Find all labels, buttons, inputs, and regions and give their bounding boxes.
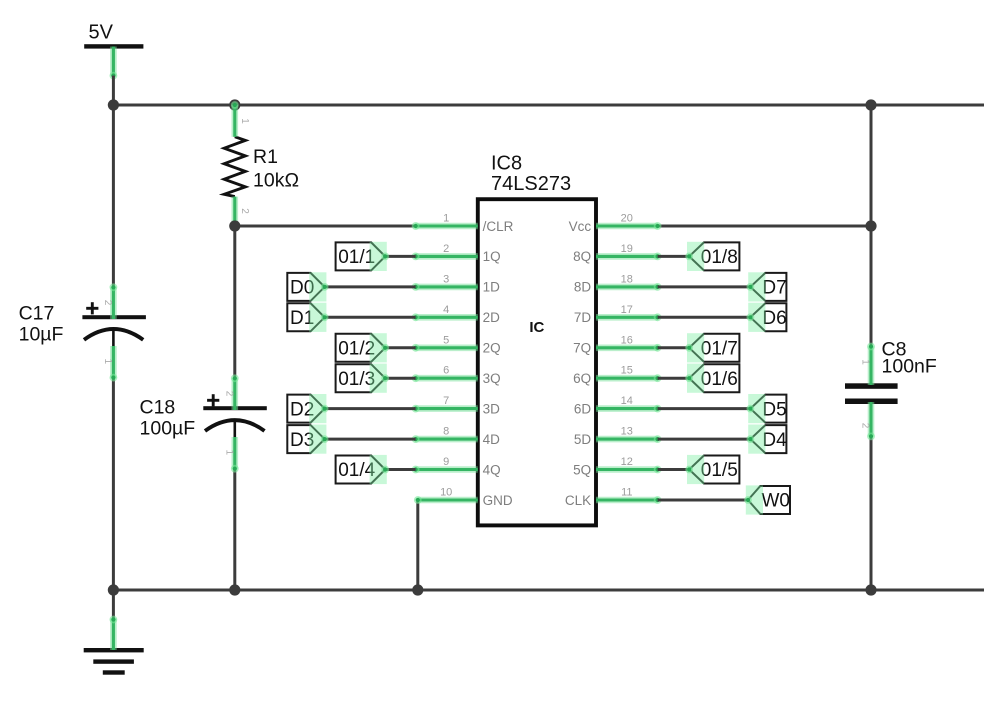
R1 pin 2 wire [231,197,250,230]
C17 pin 2 wire [102,283,117,319]
junction R1 / top rail [229,99,240,110]
IC8 pin 14 (6D) [574,395,662,416]
net label D3 [287,425,328,454]
svg-text:5Q: 5Q [573,462,591,477]
IC8 pin 18 (8D) [574,273,662,294]
wire R1 rail (junction to C18) [233,226,236,379]
power symbol 5V [84,22,143,49]
net label D5 [747,394,787,423]
C18 pin 2 wire [224,374,239,410]
svg-text:5: 5 [443,334,449,346]
C17 value label [19,303,64,346]
wire GND pin 10 down to bottom rail [416,500,419,590]
bottom ground rail wire [113,589,984,592]
svg-text:01/5: 01/5 [701,460,738,481]
svg-text:1: 1 [860,359,871,365]
svg-text:7: 7 [443,395,449,407]
net label 01/8 [685,242,739,271]
svg-text:01/8: 01/8 [701,247,738,268]
svg-text:9: 9 [443,456,449,468]
wire C8 to bottom rail [870,435,873,590]
svg-text:D4: D4 [762,430,787,451]
wire 5V to top rail [112,76,115,105]
svg-text:8: 8 [443,426,449,438]
capacitor C18 [203,394,266,438]
svg-text:2: 2 [224,391,235,397]
svg-text:D6: D6 [762,308,786,329]
IC8 pin 19 (8Q) [573,243,661,264]
IC8 reference label [491,153,571,196]
wire C8 rail (top rail to C8) [870,105,873,348]
IC8 pin 7 (3D) [412,395,500,416]
svg-text:18: 18 [621,273,633,285]
svg-text:4: 4 [443,304,449,316]
svg-text:5V: 5V [89,22,114,44]
svg-text:12: 12 [621,456,633,468]
wire D1 to IC pin [325,316,416,319]
IC8 pin 3 (1D) [412,273,500,294]
svg-text:2: 2 [860,423,871,429]
wire IC pin to 01/5 [658,468,690,471]
svg-text:7D: 7D [574,310,592,325]
wire IC pin to D4 [658,438,751,441]
svg-text:C17: C17 [19,303,55,325]
C17 pin 1 wire [102,346,117,382]
left rail wire (top rail to C17) [112,105,115,289]
svg-text:1D: 1D [483,280,501,295]
IC8 pin 15 (6Q) [573,365,661,386]
svg-text:W0: W0 [762,491,791,512]
svg-text:1Q: 1Q [483,249,501,264]
svg-text:5D: 5D [574,432,592,447]
svg-text:3: 3 [443,273,449,285]
svg-text:7Q: 7Q [573,341,591,356]
svg-text:16: 16 [621,334,633,346]
ground pin wire [110,590,118,650]
wire 01/4 to IC pin [385,468,415,471]
IC8 pin 1 (/CLR) [412,213,514,234]
IC8 pin 17 (7D) [574,304,662,325]
svg-text:Vcc: Vcc [569,219,592,234]
svg-text:6: 6 [443,365,449,377]
IC8 pin 8 (4D) [412,426,500,447]
svg-text:2Q: 2Q [483,341,501,356]
svg-text:10: 10 [440,487,452,499]
IC8 pin 9 (4Q) [412,456,501,477]
net label 01/1 [336,242,390,271]
svg-text:3Q: 3Q [483,371,501,386]
svg-text:10kΩ: 10kΩ [253,170,299,192]
svg-text:IC8: IC8 [491,153,522,175]
svg-text:1: 1 [102,359,113,365]
svg-text:1: 1 [239,118,250,124]
net label D4 [747,425,788,454]
capacitor C8 [845,383,898,404]
svg-text:19: 19 [621,243,633,255]
svg-text:D5: D5 [762,399,786,420]
wire D2 to IC pin [325,407,416,410]
junction R1 / CLR wire [229,220,240,231]
C18 value label [140,397,196,440]
svg-text:20: 20 [621,213,633,225]
wire IC pin to D7 [658,285,751,288]
svg-text:4Q: 4Q [483,462,501,477]
5V pin wire [110,47,118,80]
junction C8 rail / top rail [865,99,876,110]
svg-text:C18: C18 [140,397,176,419]
net label 01/3 [336,364,390,393]
svg-text:100nF: 100nF [882,356,937,378]
svg-text:4D: 4D [483,432,501,447]
svg-text:R1: R1 [253,146,278,168]
svg-text:14: 14 [621,395,633,407]
wire IC pin to 01/8 [658,255,690,258]
svg-text:D7: D7 [762,278,786,299]
svg-text:8D: 8D [574,280,592,295]
svg-text:74LS273: 74LS273 [491,173,571,195]
R1 value label [253,146,299,192]
IC8 pin 10 (GND) [414,487,513,508]
svg-text:10µF: 10µF [19,324,64,346]
IC8 pin 16 (7Q) [573,334,661,355]
net label D1 [287,303,328,332]
svg-text:01/6: 01/6 [701,369,738,390]
top power rail wire [113,104,984,107]
svg-text:GND: GND [483,493,513,508]
svg-text:2: 2 [239,208,250,214]
junction left rail / top rail [108,99,119,110]
svg-text:8Q: 8Q [573,249,591,264]
IC8 pin 2 (1Q) [412,243,501,264]
IC8 pin 11 (CLK) [565,487,662,508]
junction GND pin wire / bottom rail [412,584,423,595]
IC8 pin 4 (2D) [412,304,500,325]
resistor R1 [224,137,245,197]
net label D0 [287,272,328,301]
IC8 pin 20 (Vcc) [569,213,662,234]
wire IC pin to D5 [658,407,751,410]
IC IC8 74LS273 body [478,199,596,525]
net label 01/5 [685,455,739,484]
svg-text:CLK: CLK [565,493,591,508]
IC8 pin 6 (3Q) [412,365,501,386]
wire 01/3 to IC pin [385,377,415,380]
C8 value label [882,339,937,378]
svg-text:/CLR: /CLR [483,219,514,234]
svg-text:3D: 3D [483,401,501,416]
svg-text:17: 17 [621,304,633,316]
wire IC pin to D6 [658,316,751,319]
svg-text:13: 13 [621,426,633,438]
svg-text:2D: 2D [483,310,501,325]
C8 pin 1 wire [860,343,875,385]
wire D0 to IC pin [325,285,416,288]
R1 pin 1 wire [231,101,250,137]
wire Vcc pin to C8 rail [656,225,871,228]
svg-text:1: 1 [224,450,235,456]
junction C8 / bottom rail [865,584,876,595]
IC8 pin 5 (2Q) [412,334,501,355]
left rail wire (C17 to bottom rail) [112,376,115,590]
net label 01/7 [685,333,739,362]
wire IC pin to 01/7 [658,346,690,349]
wire 01/2 to IC pin [385,346,415,349]
svg-text:11: 11 [621,487,632,499]
wire 01/1 to IC pin [385,255,415,258]
net label 01/4 [336,455,390,484]
svg-text:IC: IC [529,319,544,336]
C18 pin 1 wire [224,437,239,473]
wire IC pin to 01/6 [658,377,690,380]
junction left rail / bottom rail [108,584,119,595]
net label D6 [747,303,787,332]
svg-text:01/7: 01/7 [701,339,738,360]
wire R1 to /CLR pin [235,225,418,228]
net label W0 [744,485,790,514]
wire C18 to bottom rail [233,467,236,590]
IC8 pin 13 (5D) [574,426,662,447]
net label D2 [287,394,328,423]
svg-text:1: 1 [443,213,449,225]
svg-text:2: 2 [102,300,113,306]
wire D3 to IC pin [325,438,416,441]
net label D7 [747,272,787,301]
svg-text:6D: 6D [574,401,592,416]
capacitor C17 [82,302,145,347]
svg-text:100µF: 100µF [140,418,196,440]
svg-text:2: 2 [443,243,449,255]
C8 pin 2 wire [860,402,875,440]
net label 01/2 [336,333,390,362]
IC8 pin 12 (5Q) [573,456,661,477]
junction Vcc wire / C8 rail [865,220,876,231]
ground symbol [84,648,144,675]
svg-text:6Q: 6Q [573,371,591,386]
junction C18 / bottom rail [229,584,240,595]
svg-text:15: 15 [621,365,633,377]
wire IC pin to W0 [658,499,748,502]
net label 01/6 [685,364,739,393]
